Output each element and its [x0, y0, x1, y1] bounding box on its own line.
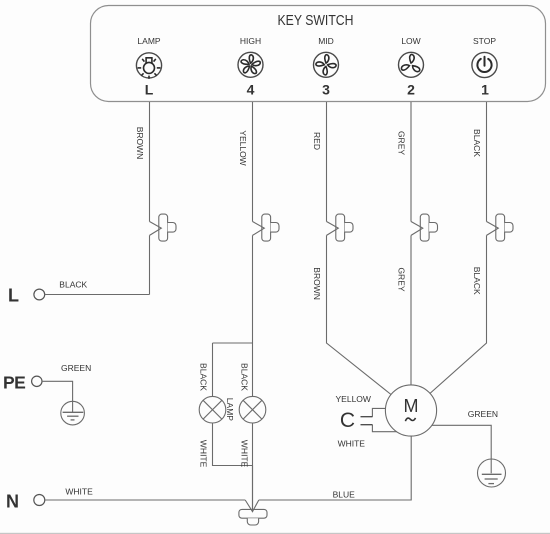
svg-text:LAMP: LAMP: [137, 36, 160, 46]
svg-text:STOP: STOP: [473, 36, 496, 46]
capacitor C leads: [372, 408, 396, 431]
terminal N circle: [34, 495, 45, 506]
wire red from terminal 3: [326, 102, 328, 222]
wire grey from connector 4 to motor: [410, 235, 412, 385]
svg-text:KEY SWITCH: KEY SWITCH: [278, 12, 354, 29]
motor M: [385, 385, 436, 436]
wire green from PE: [42, 381, 73, 412]
svg-text:WHITE: WHITE: [338, 438, 366, 448]
faston connector 5 (black wire): [487, 214, 514, 241]
wire from L terminal: [45, 294, 150, 296]
faston connector 4 (grey wire): [411, 214, 438, 241]
wire blue from motor to bottom connector: [259, 436, 411, 500]
svg-text:YELLOW: YELLOW: [238, 130, 248, 165]
svg-text:L: L: [8, 286, 19, 306]
lamp branch top wire: [213, 342, 253, 344]
svg-text:M: M: [404, 396, 419, 416]
capacitor C plates: [361, 417, 373, 425]
lamp button icon: [136, 53, 161, 79]
svg-text:C: C: [340, 409, 355, 432]
svg-text:LAMP: LAMP: [225, 398, 235, 421]
svg-text:1: 1: [481, 82, 489, 98]
lamp E2: [239, 396, 266, 423]
photo bottom edge line: [0, 533, 550, 534]
wire green from motor to ground: [432, 425, 491, 473]
wire brown from connector 3 to motor: [327, 235, 392, 394]
svg-text:BLACK: BLACK: [59, 279, 87, 289]
left lamp branch lower wire: [213, 423, 253, 466]
svg-text:GREY: GREY: [396, 267, 406, 291]
svg-text:WHITE: WHITE: [65, 486, 93, 496]
svg-text:N: N: [6, 492, 19, 512]
key switch enclosure box: [91, 6, 546, 102]
svg-text:LOW: LOW: [401, 36, 420, 46]
svg-text:BLUE: BLUE: [333, 489, 356, 499]
mid speed fan icon (4 blades): [314, 52, 339, 77]
svg-text:YELLOW: YELLOW: [336, 394, 371, 404]
svg-text:GREEN: GREEN: [468, 409, 498, 419]
terminal L circle: [34, 289, 45, 300]
svg-text:WHITE: WHITE: [198, 440, 208, 468]
svg-text:4: 4: [247, 82, 255, 98]
svg-text:WHITE: WHITE: [239, 440, 249, 468]
svg-text:BROWN: BROWN: [135, 127, 145, 160]
high speed fan icon (5 blades): [238, 52, 263, 77]
wire black down from connector 1 to L line: [149, 235, 151, 294]
svg-text:3: 3: [322, 82, 330, 98]
svg-text:MID: MID: [318, 36, 334, 46]
wire black from terminal 1: [486, 102, 488, 222]
svg-text:L: L: [145, 82, 154, 98]
right lamp branch lower wire: [252, 423, 254, 466]
svg-text:BROWN: BROWN: [312, 267, 322, 300]
ground symbol PE: [61, 401, 85, 425]
wire white from N to bottom connector: [45, 499, 245, 501]
svg-text:2: 2: [407, 82, 415, 98]
svg-text:GREY: GREY: [396, 131, 406, 155]
wire brown from terminal L of switch: [149, 102, 151, 222]
low speed fan icon (3 blades): [399, 52, 424, 77]
svg-text:BLACK: BLACK: [239, 363, 249, 391]
faston connector 2 (yellow wire): [253, 214, 280, 241]
stop power icon: [472, 52, 497, 77]
left lamp branch upper wire: [212, 343, 214, 396]
faston connector 1 (brown wire): [150, 214, 177, 241]
wire white from lamps to bottom connector: [252, 466, 254, 512]
right lamp branch upper wire: [252, 343, 254, 396]
wire black from connector 5 to motor: [430, 235, 487, 393]
svg-text:PE: PE: [3, 373, 25, 393]
faston connector 3 (red wire): [327, 214, 354, 241]
svg-text:BLACK: BLACK: [472, 129, 482, 157]
bottom faston connector: [239, 466, 267, 526]
wire grey from terminal 2: [410, 102, 412, 222]
svg-text:BLACK: BLACK: [198, 363, 208, 391]
svg-text:HIGH: HIGH: [240, 36, 261, 46]
wire from connector 2 down to lamp branch: [252, 235, 254, 343]
svg-text:BLACK: BLACK: [472, 267, 482, 295]
terminal PE circle: [32, 376, 42, 386]
ground symbol motor: [478, 459, 506, 487]
svg-text:GREEN: GREEN: [61, 363, 91, 373]
wire yellow from terminal 4: [252, 102, 254, 222]
lamp E1: [199, 396, 226, 423]
svg-text:RED: RED: [312, 132, 322, 150]
